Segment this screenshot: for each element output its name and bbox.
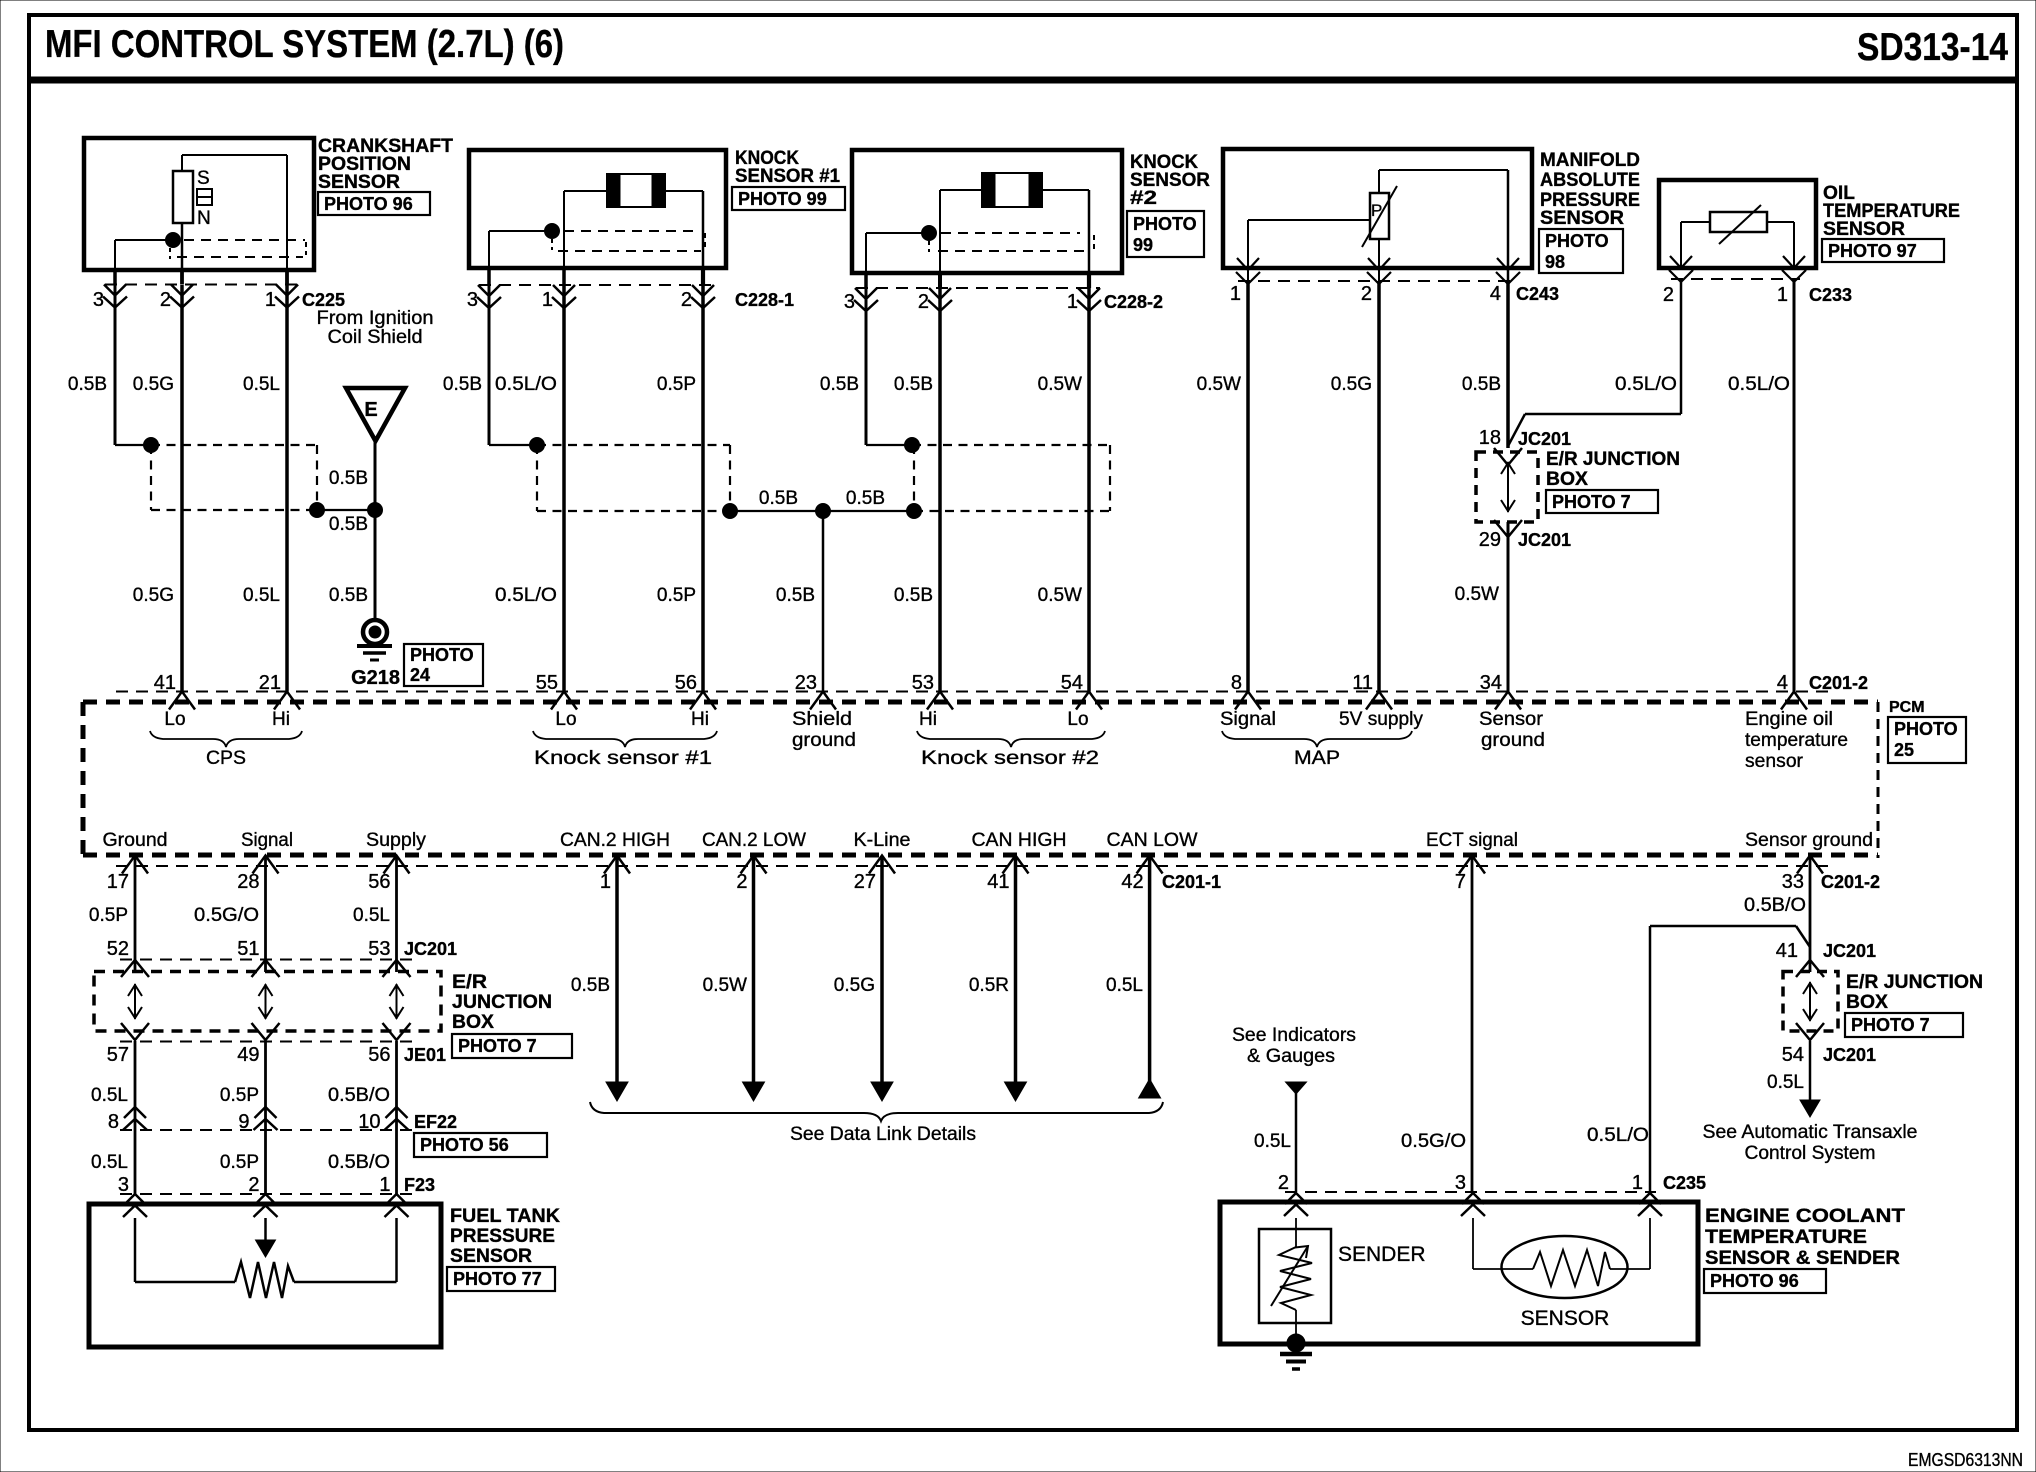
CPS shield junction dot [166,233,181,248]
K1 inner top edge left [564,190,607,192]
PCM pin 54 arrow [1076,692,1102,710]
svg-text:99: 99 [1133,235,1153,255]
sender variable resistor [1279,1247,1312,1310]
K1 shield junction dot [545,224,560,239]
svg-text:EF22: EF22 [414,1112,457,1132]
svg-text:0.5B: 0.5B [571,975,610,996]
svg-text:0.5B: 0.5B [68,374,107,395]
PCM left edge dashed [81,702,86,855]
svg-text:53: 53 [368,938,390,960]
wire 0.5G/O ECT signal [1471,857,1474,1192]
wire JE01 to EF22 [395,1041,398,1130]
wire 0.5G data link [880,857,884,1082]
svg-text:TEMPERATURE: TEMPERATURE [1705,1227,1867,1248]
svg-text:Signal: Signal [241,830,293,851]
wire CPS pin3 to C225 [113,270,117,285]
svg-text:0.5B: 0.5B [820,374,859,395]
fuel sensor resistor lead right [294,1281,397,1284]
svg-text:C228-2: C228-2 [1104,292,1163,312]
ground G218 symbol [363,620,387,644]
svg-text:53: 53 [912,672,934,694]
svg-text:0.5B: 0.5B [776,585,815,606]
svg-text:ABSOLUTE: ABSOLUTE [1540,170,1640,191]
svg-text:11: 11 [1352,672,1373,694]
coolant pin1 lead horizontal [1610,1268,1650,1270]
E/R junction internal wire [128,984,142,1019]
wire PCM to JC201 [134,857,137,972]
svg-text:3: 3 [1455,1172,1466,1194]
coolant sensor thermistor ellipse [1502,1236,1628,1298]
svg-text:FUEL TANK: FUEL TANK [450,1206,560,1227]
svg-text:BOX: BOX [1846,992,1888,1013]
connector C233 dashed line [1671,278,1800,280]
wire 0.5L/O K1 pin1 to PCM 55 [562,285,566,692]
knock sensor 1 box [469,150,726,268]
svg-text:Sensor: Sensor [1479,709,1544,730]
K2 pin3 lead vertical [865,233,867,273]
svg-text:21: 21 [259,672,281,694]
wire 0.5R data link [1014,857,1018,1082]
svg-text:Knock sensor #2: Knock sensor #2 [921,748,1099,769]
thermistor slash [1719,205,1761,244]
svg-text:8: 8 [108,1111,119,1133]
K2 inner top edge left [940,189,982,191]
svg-text:C201-2: C201-2 [1821,872,1880,892]
svg-text:PHOTO 97: PHOTO 97 [1828,241,1917,261]
svg-text:Coil Shield: Coil Shield [328,327,423,348]
svg-text:PHOTO 7: PHOTO 7 [1851,1015,1930,1035]
svg-text:C201-1: C201-1 [1162,872,1221,892]
wire K1 shield tap [489,444,537,446]
svg-text:PHOTO: PHOTO [410,645,474,665]
EF22 photo ref box [414,1133,547,1157]
wire shield ground bus [730,510,914,512]
svg-text:0.5G: 0.5G [1331,374,1372,395]
svg-text:P: P [1371,201,1382,220]
coolant pin3 lead [1472,1218,1474,1269]
magnet symbol [197,189,212,205]
CPS brace [150,731,302,747]
EF22 pin 10 arrow [385,1107,409,1130]
svg-text:0.5L: 0.5L [1106,975,1143,996]
svg-text:1: 1 [379,1174,390,1196]
svg-text:41: 41 [1776,940,1798,962]
sender lead bottom [1295,1310,1297,1343]
wire 0.5L/O oil pin2 horizontal [1525,413,1681,416]
fuel photo ref box [447,1267,555,1291]
junction dot shield ground drop [816,504,831,519]
connector C225 dashed line [105,284,298,286]
C225 pin3 arrow [103,285,127,308]
K2 shield dashed bottom [938,250,1084,252]
svg-text:0.5L: 0.5L [1767,1072,1804,1093]
wire EF22 to F23 [395,1130,398,1194]
wire PCM to JC201 [395,857,398,972]
ER box photo ref [1546,490,1658,513]
fuel sensor right lead [395,1218,398,1282]
junction dot shield bus left [723,504,738,519]
svg-text:0.5L: 0.5L [243,374,280,395]
MAP sensing element P [1370,193,1389,239]
PCM pin 4 arrow [1781,692,1807,710]
PCM pin 34 arrow [1495,692,1521,710]
svg-text:0.5B: 0.5B [759,488,798,509]
svg-text:2: 2 [160,289,171,311]
svg-text:Hi: Hi [691,709,709,730]
svg-text:0.5L/O: 0.5L/O [1728,374,1790,395]
svg-text:2: 2 [248,1174,259,1196]
svg-text:0.5W: 0.5W [1038,585,1082,606]
sender lead top [1295,1218,1297,1247]
EF22 pin 9 arrow [254,1107,278,1130]
svg-text:1: 1 [542,289,553,311]
K1 shield stub dashed [551,239,553,250]
CAN LOW arrow up [1139,1079,1161,1098]
svg-text:2: 2 [736,871,747,893]
PCM pin 55 arrow [551,692,577,710]
svg-text:0.5L: 0.5L [353,905,390,926]
svg-text:MFI CONTROL SYSTEM (2.7L) (6): MFI CONTROL SYSTEM (2.7L) (6) [45,23,564,66]
svg-text:Lo: Lo [1067,709,1088,730]
svg-text:0.5G/O: 0.5G/O [194,905,259,926]
CPS pin3 internal lead horizontal [115,239,167,241]
K2 shield junction dot [922,226,937,241]
K1 shield dashed top [564,230,697,232]
PCM right edge dashed [1877,702,1880,858]
svg-text:Shield: Shield [792,709,852,730]
K2 shield stub dashed [928,241,930,252]
svg-text:N: N [197,208,211,229]
svg-text:Hi: Hi [272,709,290,730]
C228-1 pin3 arrow [477,285,501,308]
C228-2 pin2 arrow [928,288,952,311]
svg-text:18: 18 [1479,427,1501,449]
svg-text:1: 1 [1230,283,1241,305]
MAP pin4 lead [1507,170,1510,281]
svg-text:0.5W: 0.5W [1038,374,1082,395]
svg-text:See Indicators: See Indicators [1232,1025,1356,1046]
CPS shield dashed top [184,239,305,241]
svg-text:0.5P: 0.5P [220,1152,259,1173]
svg-text:C225: C225 [302,290,345,310]
wire 0.5B K1 shield [488,285,491,445]
junction dot K1 shield [530,438,545,453]
svg-text:0.5L/O: 0.5L/O [495,585,557,606]
data link arrow down [743,1082,765,1101]
wire 0.5B/O PCM 33 to JC201 41 [1809,857,1812,972]
svg-text:56: 56 [675,672,697,694]
C235 pin 3 arrow [1461,1193,1485,1216]
svg-text:0.5L: 0.5L [91,1085,128,1106]
PCM pin 41 bottom arrow [1003,856,1029,874]
data link arrow down [1005,1082,1027,1101]
CPS sensor element [173,171,193,223]
svg-text:0.5G: 0.5G [834,975,875,996]
E/R junction internal wire right [1803,982,1817,1021]
JC201 pin 53 arrow [383,960,411,977]
svg-text:SENSOR: SENSOR [1521,1307,1610,1330]
wire 0.5L/O oil pin2 down [1680,279,1683,414]
JC201 pin 52 arrow [121,960,149,977]
sender component box [1259,1229,1331,1323]
svg-text:2: 2 [1663,284,1674,306]
JC201 pin 51 arrow [252,960,280,977]
svg-text:BOX: BOX [452,1012,494,1033]
sender ground junction dot [1287,1334,1305,1352]
svg-text:E: E [364,399,377,421]
C243 pin2 arrow [1367,258,1391,284]
K1 pin3 internal lead [489,230,546,232]
svg-text:56: 56 [368,1044,390,1066]
fuel sensor left lead [134,1218,137,1282]
E/R junction box dashed outline [94,972,441,1032]
fuel sensor resistor [235,1262,294,1298]
svg-text:PHOTO 96: PHOTO 96 [1710,1271,1799,1291]
svg-text:1: 1 [1632,1172,1643,1194]
CPS shield dashed loop [151,445,317,510]
svg-text:K-Line: K-Line [854,830,911,851]
svg-text:S: S [197,168,210,189]
svg-text:0.5L/O: 0.5L/O [1587,1125,1649,1146]
svg-text:BOX: BOX [1546,469,1588,490]
CPS pin2 lead [181,223,184,270]
svg-text:4: 4 [1777,672,1788,694]
oil temperature sensor box [1659,180,1816,268]
F23 pin 3 arrow [123,1194,147,1217]
connector C228-1 dashed line [479,284,716,286]
svg-text:0.5B: 0.5B [329,468,368,489]
K1 photo ref box [732,187,845,210]
svg-text:0.5P: 0.5P [657,585,696,606]
oil pin2 lead vertical [1680,222,1682,268]
wire 0.5B K2 shield [865,288,868,445]
wire EF22 to F23 [264,1130,267,1194]
svg-text:3: 3 [118,1174,129,1196]
svg-text:Supply: Supply [366,830,427,851]
svg-text:7: 7 [1455,871,1466,893]
junction dot shield bus right [907,504,922,519]
svg-text:0.5W: 0.5W [1455,584,1499,605]
JC201 pin29 arrow [1494,520,1522,537]
svg-text:Control System: Control System [1745,1143,1876,1164]
svg-text:0.5W: 0.5W [703,975,747,996]
C225 pin2 arrow [170,285,194,308]
MAP element slash [1362,186,1397,247]
connector JE01 dashed line [120,1041,420,1043]
svg-text:Signal: Signal [1220,709,1276,730]
svg-text:SENSOR #1: SENSOR #1 [735,166,840,187]
JE01 pin 56 arrow [383,1023,411,1040]
MAP photo ref box [1539,229,1623,273]
svg-text:0.5G: 0.5G [133,374,174,395]
connector C201-1 bottom dashed line [116,865,1836,867]
svg-text:0.5B: 0.5B [329,585,368,606]
CPS shield stub dashed [169,248,171,259]
wire 0.5L sender to gauges [1295,1093,1298,1192]
K1 pin2 lead [702,191,705,268]
svg-text:1: 1 [600,871,611,893]
svg-text:F23: F23 [404,1175,435,1195]
PCM pin 27 bottom arrow [869,856,895,874]
svg-text:Lo: Lo [555,709,576,730]
JC201 pin41 arrow [1796,960,1824,977]
svg-text:SENSOR: SENSOR [318,172,400,193]
wire 0.5L CAN LOW [1148,857,1152,1098]
svg-text:41: 41 [987,871,1009,893]
svg-text:JC201: JC201 [1823,941,1876,961]
svg-text:CAN LOW: CAN LOW [1107,830,1198,851]
wire 0.5B data link [615,857,619,1082]
wire CPS pin1 to C225 [285,270,289,285]
wire 0.5L/O diagonal to JC201 18 [1508,414,1525,446]
svg-text:5V supply: 5V supply [1339,709,1423,730]
svg-text:#2: #2 [1130,188,1157,209]
svg-text:3: 3 [93,289,104,311]
PCM pin 33 bottom arrow [1797,856,1823,874]
fuel sensor resistor lead left [135,1281,235,1284]
svg-text:PHOTO: PHOTO [1894,719,1958,739]
PCM pin 2 bottom arrow [741,856,767,874]
svg-text:PHOTO 56: PHOTO 56 [420,1135,509,1155]
svg-text:0.5W: 0.5W [1197,374,1241,395]
F23 pin 2 arrow [254,1194,278,1217]
svg-text:SENDER: SENDER [1338,1243,1426,1266]
engine coolant temperature sensor and sender box [1220,1202,1698,1344]
transaxle arrow [1800,1100,1820,1117]
coolant pin1 lead [1649,1218,1651,1269]
PCM pin 1 bottom arrow [604,856,630,874]
svg-text:2: 2 [918,291,929,313]
JC201 pin18 arrow [1494,448,1522,465]
svg-text:0.5L: 0.5L [243,585,280,606]
indicators arrow [1286,1082,1307,1094]
svg-text:SENSOR & SENDER: SENSOR & SENDER [1705,1248,1900,1269]
wire 0.5L/O horizontal to JC201 41 [1650,925,1796,928]
PCM pin 28 bottom arrow [253,856,279,874]
svg-text:54: 54 [1061,672,1083,694]
JC201 pin54 arrow [1796,1023,1824,1040]
C243 pin1 arrow [1236,258,1260,284]
svg-text:PHOTO 99: PHOTO 99 [738,189,827,209]
F23 pin 1 arrow [385,1194,409,1217]
CPS shield dashed bracket [305,242,307,255]
svg-text:17: 17 [107,871,129,893]
wire K1 pin1 to C228-1 [562,268,566,285]
wire 0.5L/O oil pin1 to PCM 4 [1793,279,1796,692]
PCM pin 53 arrow [927,692,953,710]
sender arrow diagonal [1271,1246,1308,1306]
svg-text:MANIFOLD: MANIFOLD [1540,150,1640,171]
wire 0.5W data link [752,857,756,1082]
K2 shield dashed loop [912,445,1110,511]
svg-text:E/R: E/R [452,972,487,993]
svg-text:ECT signal: ECT signal [1426,830,1518,851]
svg-text:0.5B: 0.5B [846,488,885,509]
svg-text:41: 41 [154,672,176,694]
oil pin1 lead horizontal [1767,221,1794,223]
svg-text:PHOTO 7: PHOTO 7 [1552,492,1631,512]
CPS shield dashed bottom [177,256,303,258]
K1 inner top edge right [665,190,703,192]
data link arrow down [606,1082,628,1101]
svg-text:Engine oil: Engine oil [1745,709,1833,730]
wire 0.5G CPS pin2 to PCM 41 [180,285,184,692]
G218 photo ref box [404,644,483,686]
svg-text:Knock sensor #1: Knock sensor #1 [534,748,712,769]
svg-text:See Data Link Details: See Data Link Details [790,1124,976,1145]
svg-text:51: 51 [237,938,259,960]
svg-text:PCM: PCM [1889,699,1925,716]
svg-text:3: 3 [467,289,478,311]
MAP pin1 lead horizontal [1248,219,1370,221]
C235 pin 2 arrow [1284,1193,1308,1216]
E/R junction box (right) dashed outline [1783,972,1838,1032]
connector C243 dashed line [1238,280,1512,282]
C228-1 pin2 arrow [691,285,715,308]
PCM top edge dashed [83,700,1878,705]
ER box photo ref [452,1034,572,1058]
MAP inner top edge [1379,169,1508,171]
wire 0.5B shield ground to PCM 23 [822,511,825,692]
wire K2 shield tap [866,444,912,446]
svg-text:PHOTO 77: PHOTO 77 [453,1269,542,1289]
PCM pin 42 bottom arrow [1137,856,1163,874]
svg-text:G218: G218 [351,667,400,689]
C228-2 pin3 arrow [854,288,878,311]
C225 pin1 arrow [275,285,299,308]
svg-text:ground: ground [792,730,856,751]
svg-text:0.5R: 0.5R [969,975,1009,996]
svg-text:0.5P: 0.5P [657,374,696,395]
svg-text:0.5B: 0.5B [329,514,368,535]
PCM pin 41 arrow [169,692,195,710]
junction dot CPS shield [144,438,159,453]
svg-text:JC201: JC201 [1518,530,1571,550]
svg-text:See Automatic Transaxle: See Automatic Transaxle [1703,1122,1918,1143]
svg-text:1: 1 [1067,291,1078,313]
PCM photo ref box [1888,717,1966,763]
svg-text:57: 57 [107,1044,129,1066]
PCM pin 56 arrow [690,692,716,710]
wire JE01 to EF22 [264,1041,267,1130]
C233 pin1 arrow [1782,256,1806,282]
svg-text:56: 56 [368,871,390,893]
svg-text:4: 4 [1490,283,1501,305]
svg-text:0.5B: 0.5B [894,374,933,395]
C228-1 pin1 arrow [552,285,576,308]
svg-text:Ground: Ground [103,830,168,851]
svg-text:0.5B: 0.5B [894,585,933,606]
junction dot on G218 drop [368,503,383,518]
wire 0.5W JC201 29 to PCM 34 [1507,522,1510,692]
wire EF22 to F23 [134,1130,137,1194]
svg-text:C233: C233 [1809,285,1852,305]
svg-text:23: 23 [795,672,817,694]
crankshaft position sensor box [84,138,314,270]
svg-text:SENSOR: SENSOR [1540,208,1624,229]
K1 shield dashed bottom [558,250,701,252]
svg-text:ground: ground [1481,730,1545,751]
K2 pin2 lead [939,190,941,273]
E/R junction internal wire [390,984,404,1019]
svg-text:55: 55 [536,672,558,694]
wire 0.5P K1 pin2 to PCM 56 [701,285,705,692]
wire 0.5L JC201 54 down [1809,1041,1812,1100]
svg-text:Lo: Lo [164,709,185,730]
oil pin2 lead horizontal [1681,221,1710,223]
wire 0.5L/O diagonal joint [1796,926,1810,947]
svg-text:sensor: sensor [1745,751,1804,772]
